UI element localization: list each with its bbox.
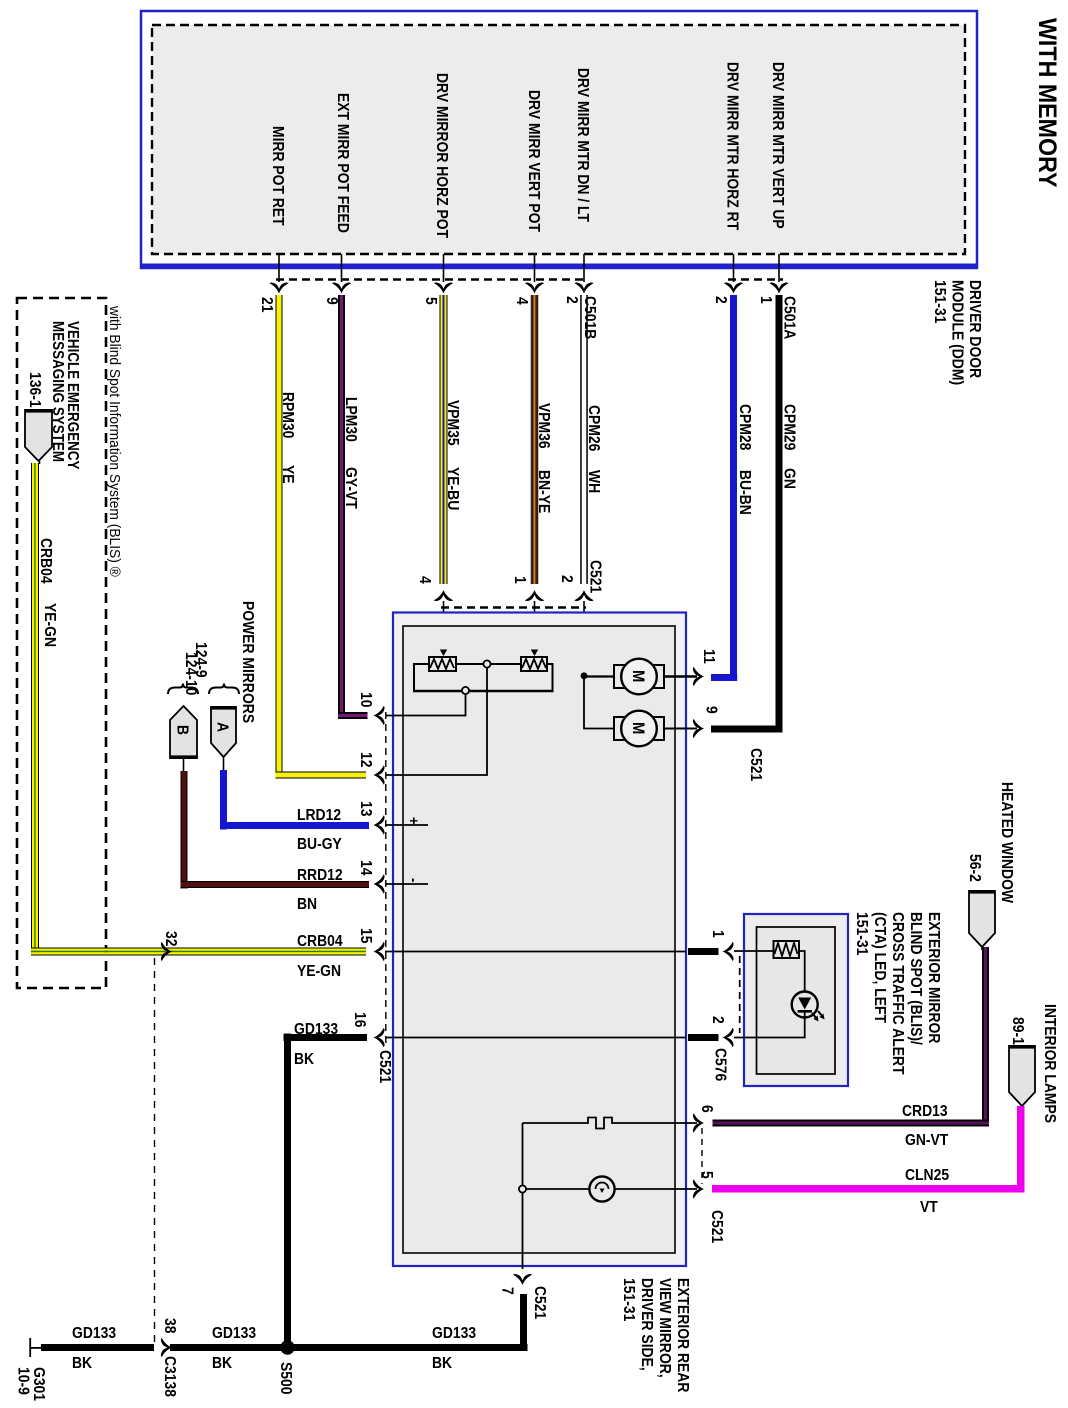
svg-text:11: 11 xyxy=(700,649,718,664)
svg-text:GD133: GD133 xyxy=(432,1324,476,1342)
wire CPM29 GN horizontal to pin 9 xyxy=(711,726,783,733)
LED light rays xyxy=(812,1011,823,1019)
wire RRD12 BN horizontal xyxy=(181,881,370,882)
svg-text:5: 5 xyxy=(422,297,440,305)
svg-text:DRV MIRR VERT POT: DRV MIRR VERT POT xyxy=(525,90,543,232)
DDM pin connector arrow x=279 xyxy=(269,282,288,293)
connector 56-2 HEATED WINDOW pentagon xyxy=(969,891,995,947)
wire VPM35 YE-BU vertical (pin 5) xyxy=(440,295,441,584)
svg-text:LRD12: LRD12 xyxy=(297,806,341,824)
svg-text:POWER MIRRORS: POWER MIRRORS xyxy=(239,601,257,723)
exterior mirror box (blue outline) xyxy=(393,613,686,1267)
connector 89-1 INTERIOR LAMPS pentagon xyxy=(1009,1046,1035,1106)
wire GD133 BK segment 3 xyxy=(288,1344,528,1351)
junction node on mid link xyxy=(483,660,490,667)
wire CPM28 BU-BN horizontal to pin 11 xyxy=(711,674,737,681)
svg-text:B: B xyxy=(173,725,191,735)
DDM pin stub wire x=341.5 xyxy=(341,254,343,282)
svg-text:7: 7 xyxy=(498,1287,516,1295)
svg-text:2: 2 xyxy=(709,1016,727,1024)
pin 9 arrow xyxy=(693,719,704,738)
motor M2 circle xyxy=(621,711,657,747)
wire heater branch vertical xyxy=(522,1123,524,1269)
svg-text:-: - xyxy=(406,878,423,883)
svg-text:with Blind Spot Information Sy: with Blind Spot Information System (BLIS… xyxy=(106,305,123,577)
BLIS system dashed box xyxy=(17,298,106,988)
svg-text:RRD12: RRD12 xyxy=(297,866,343,884)
wire P1 left lead xyxy=(414,664,429,691)
driver door module DDM box (blue outline) xyxy=(141,11,977,268)
svg-text:14: 14 xyxy=(357,860,375,876)
wire pin 16 through-line (ground path) xyxy=(385,1037,686,1039)
wire CPM29 GN vertical (pin 1) xyxy=(776,295,783,733)
svg-text:BK: BK xyxy=(72,1354,92,1372)
svg-text:A: A xyxy=(213,722,231,732)
DDM pin stub wire x=779 xyxy=(778,254,780,282)
wire LRD12 BU-GY horizontal xyxy=(220,822,369,829)
puddle lamp xyxy=(589,1176,614,1201)
svg-text:M: M xyxy=(629,670,647,682)
connector C3138 dashed line xyxy=(154,958,156,1343)
wire CRD13 GN-VT horizontal xyxy=(713,1120,990,1122)
wire P2 right lead xyxy=(547,664,553,691)
wire M1 left lead xyxy=(584,675,614,677)
svg-text:YE-GN: YE-GN xyxy=(297,962,341,980)
brace over connector B xyxy=(168,684,198,695)
wire GD133 BK segment 1 xyxy=(41,1344,154,1351)
wire mid link down to pin 12 xyxy=(386,668,487,775)
wire M1 right lead xyxy=(664,675,697,677)
motor common lead wire pin2 xyxy=(583,601,585,676)
svg-text:+: + xyxy=(406,817,423,825)
svg-text:4: 4 xyxy=(513,297,531,305)
mirror top connector arrow x=534.5 xyxy=(525,590,544,601)
svg-text:13: 13 xyxy=(357,801,375,816)
wire M2 right lead xyxy=(664,728,697,730)
brace over connector A xyxy=(209,684,239,695)
wire BLIS pin 1 lead xyxy=(734,950,774,952)
wire GD133 BK up to pin 7 xyxy=(520,1294,527,1348)
svg-text:1: 1 xyxy=(757,296,775,304)
DDM pin connector arrow x=584 xyxy=(574,282,593,293)
svg-text:BU-GY: BU-GY xyxy=(297,835,342,853)
pin 13 arrow xyxy=(374,815,385,834)
BLIS LED box (blue outline) xyxy=(744,914,848,1086)
svg-text:1: 1 xyxy=(511,576,529,584)
svg-text:DRIVER DOORMODULE (DDM)151-31: DRIVER DOORMODULE (DDM)151-31 xyxy=(931,280,984,385)
svg-text:C521: C521 xyxy=(376,1050,394,1083)
pin 10 arrow xyxy=(374,706,385,725)
wire CLN25 VT vertical xyxy=(1017,1106,1025,1193)
motor M1 housing xyxy=(614,665,664,688)
svg-text:BN-YE: BN-YE xyxy=(535,470,553,513)
svg-text:2: 2 xyxy=(563,296,581,304)
wire LPM30 GY-VT horizontal to pin 10 xyxy=(338,712,368,714)
svg-text:GN: GN xyxy=(780,468,798,489)
mirror top connector arrow x=443.5 xyxy=(434,590,453,601)
connector 136-1 pentagon xyxy=(25,410,52,461)
svg-text:VEHICLE EMERGENCYMESSAGING SYS: VEHICLE EMERGENCYMESSAGING SYSTEM xyxy=(49,321,81,470)
wire RPM30 YE vertical (pin 21) xyxy=(276,295,277,779)
mirror inner box xyxy=(403,626,675,1253)
svg-text:WITH MEMORY: WITH MEMORY xyxy=(1033,18,1061,188)
BLIS pin 2 arrow xyxy=(723,1028,734,1047)
connector A pentagon xyxy=(211,707,236,757)
wire bus down to pin 10 xyxy=(386,694,466,716)
DDM pin stub wire x=443.5 xyxy=(443,254,445,282)
wire B stub xyxy=(183,759,185,772)
wire GD133 BK pin 16 stub xyxy=(284,1034,368,1041)
svg-text:VPM35: VPM35 xyxy=(444,400,462,446)
svg-text:EXT MIRR POT FEED: EXT MIRR POT FEED xyxy=(334,93,352,233)
pin 6 arrow xyxy=(693,1113,704,1132)
svg-text:C576: C576 xyxy=(711,1048,729,1081)
svg-text:G30110-9: G30110-9 xyxy=(14,1367,48,1401)
connector C576 dashed line xyxy=(739,956,741,1033)
svg-text:C521: C521 xyxy=(586,560,604,593)
svg-text:YE-BU: YE-BU xyxy=(444,467,462,510)
svg-text:C501B: C501B xyxy=(581,296,599,339)
svg-text:9: 9 xyxy=(702,706,720,714)
svg-text:LPM30: LPM30 xyxy=(342,397,360,442)
DDM pin connector arrow x=534.5 xyxy=(525,282,544,293)
mirror connector C521 top dashed line xyxy=(441,606,586,609)
svg-text:HEATED WINDOW: HEATED WINDOW xyxy=(998,782,1016,904)
connector B pentagon (pointed top) xyxy=(170,706,197,758)
svg-text:56-2: 56-2 xyxy=(966,854,984,882)
svg-text:CPM26: CPM26 xyxy=(585,405,603,451)
pin 13 lead wire xyxy=(385,824,428,826)
svg-text:GD133: GD133 xyxy=(212,1324,256,1342)
svg-text:VPM36: VPM36 xyxy=(535,403,553,449)
svg-text:EXTERIOR MIRRORBLIND SPOT (BLI: EXTERIOR MIRRORBLIND SPOT (BLIS)/CROSS T… xyxy=(853,912,943,1075)
P2 wiper arrowhead xyxy=(531,650,538,657)
svg-text:CPM28: CPM28 xyxy=(736,404,754,450)
svg-text:GY-VT: GY-VT xyxy=(342,467,360,509)
pin 16 arrow xyxy=(374,1028,385,1047)
wire 56-2 stub xyxy=(981,947,983,950)
svg-text:CPM29: CPM29 xyxy=(780,404,798,450)
wire CPM26 WH vertical (pin 2) xyxy=(580,295,582,584)
svg-text:BU-BN: BU-BN xyxy=(736,470,754,515)
wire RPM30 YE horizontal to pin 12 xyxy=(276,772,367,773)
mirror right connector dashed line xyxy=(701,1128,703,1184)
svg-text:C3138: C3138 xyxy=(161,1356,179,1397)
pin 7 arrow xyxy=(513,1274,532,1285)
svg-text:C521: C521 xyxy=(531,1286,549,1319)
svg-text:89-1: 89-1 xyxy=(1009,1017,1027,1045)
DDM pin stub wire x=733.5 xyxy=(733,254,735,282)
svg-text:BK: BK xyxy=(294,1050,314,1068)
svg-text:21: 21 xyxy=(258,297,276,312)
wire A stub xyxy=(223,757,225,771)
DDM inner dashed boundary xyxy=(152,25,965,254)
wire CRD13 GN-VT vertical xyxy=(982,947,984,1127)
wire pin 15 through-line (CRB04 path) xyxy=(385,951,686,953)
wire VPM36 BN-YE vertical (pin 4) xyxy=(531,295,532,584)
svg-text:2: 2 xyxy=(712,296,730,304)
svg-text:WH: WH xyxy=(585,470,603,493)
BLIS pin 1 arrow xyxy=(723,942,734,961)
wire LPM30 GY-VT vertical (pin 9) xyxy=(338,295,340,719)
svg-text:C501A: C501A xyxy=(780,296,798,339)
wire P1-P2 mid link xyxy=(456,663,521,665)
motor M2 housing xyxy=(614,717,664,740)
wire CRB04 YE-GN vertical xyxy=(31,463,32,956)
LED D1 circle xyxy=(792,992,818,1018)
splice S500 dot xyxy=(280,1340,294,1354)
svg-text:S500: S500 xyxy=(277,1362,295,1394)
motor M1 circle xyxy=(621,659,657,695)
svg-text:CLN25: CLN25 xyxy=(905,1166,949,1184)
svg-text:2: 2 xyxy=(558,575,576,583)
svg-text:CRB04: CRB04 xyxy=(37,538,55,584)
wiper lead wire pin4 xyxy=(443,601,445,650)
wire 136-1 stub xyxy=(39,461,41,464)
wire BLIS pin 2 lead xyxy=(734,1037,757,1039)
wire RRD12 BN vertical xyxy=(181,771,182,889)
svg-text:GD133: GD133 xyxy=(72,1324,116,1342)
wire lamp to pin 5 xyxy=(615,1188,697,1190)
wire common down to M2 xyxy=(584,678,614,729)
wire mirror to BLIS pin 1 stub xyxy=(688,948,719,955)
svg-text:6: 6 xyxy=(698,1105,716,1113)
wire motor common junction dot xyxy=(581,672,588,679)
svg-text:1: 1 xyxy=(709,930,727,938)
svg-text:GN-VT: GN-VT xyxy=(905,1131,948,1149)
DDM pin connector arrow x=341.5 xyxy=(332,282,351,293)
mirror left connector dashed line xyxy=(385,712,387,1044)
pin 11 arrow xyxy=(693,667,704,686)
connector C501A dashed line xyxy=(728,278,783,280)
connector C501B dashed line xyxy=(276,278,588,280)
wiper lead wire pin1 xyxy=(534,601,536,650)
pin 15 arrow xyxy=(374,942,385,961)
wire CRB04 YE-GN horizontal xyxy=(31,948,366,949)
junction node lamp branch xyxy=(519,1185,526,1192)
pin 14 arrow xyxy=(374,874,385,893)
svg-text:DRV MIRROR HORZ POT: DRV MIRROR HORZ POT xyxy=(433,73,451,238)
svg-text:DRV MIRR MTR VERT UP: DRV MIRR MTR VERT UP xyxy=(769,62,787,229)
DDM pin connector arrow x=779 xyxy=(769,282,788,293)
junction node on bottom bus xyxy=(462,687,469,694)
DDM pin stub wire x=534.5 xyxy=(534,254,536,282)
DDM pin stub wire x=279 xyxy=(278,254,280,282)
heated mirror element xyxy=(523,1118,698,1129)
svg-text:12: 12 xyxy=(357,752,375,767)
wire CPM28 BU-BN vertical (pin 2) xyxy=(730,295,737,681)
svg-text:BK: BK xyxy=(432,1354,452,1372)
potentiometer P1 (horizontal pot) xyxy=(429,657,456,671)
wire GD133 BK up to pin 16 xyxy=(284,1034,291,1348)
svg-text:CRD13: CRD13 xyxy=(902,1102,948,1120)
svg-text:C521: C521 xyxy=(708,1210,726,1243)
svg-text:EXTERIOR REARVIEW MIRROR,DRIVE: EXTERIOR REARVIEW MIRROR,DRIVER SIDE,151… xyxy=(620,1278,692,1393)
connector 32 arrow xyxy=(161,942,172,961)
svg-text:DRV MIRR MTR DN / LT: DRV MIRR MTR DN / LT xyxy=(574,68,592,222)
BLIS inner box xyxy=(757,927,836,1074)
svg-text:38: 38 xyxy=(161,1318,179,1333)
svg-text:BN: BN xyxy=(297,895,317,913)
svg-text:DRV MIRR MTR HORZ RT: DRV MIRR MTR HORZ RT xyxy=(723,62,741,230)
wire resistor to LED xyxy=(799,951,805,992)
mirror top connector arrow x=584 xyxy=(574,590,593,601)
svg-text:M: M xyxy=(629,722,647,734)
wire to puddle lamp xyxy=(526,1188,590,1190)
pin 5 arrow xyxy=(693,1179,704,1198)
svg-text:YE-GN: YE-GN xyxy=(41,603,59,647)
LED D1 triangle and bar xyxy=(798,998,811,1010)
svg-text:C521: C521 xyxy=(747,748,765,781)
DDM pin stub wire x=584 xyxy=(583,254,585,282)
svg-text:15: 15 xyxy=(357,928,375,943)
DDM pin connector arrow x=443.5 xyxy=(434,282,453,293)
connector C3138 arrow (38) xyxy=(161,1338,172,1357)
svg-text:4: 4 xyxy=(416,576,434,584)
wire LRD12 BU-GY vertical xyxy=(220,770,227,830)
pin 12 arrow xyxy=(374,765,385,784)
svg-text:INTERIOR LAMPS: INTERIOR LAMPS xyxy=(1041,1004,1059,1123)
svg-text:VT: VT xyxy=(920,1198,938,1216)
svg-text:5: 5 xyxy=(698,1171,716,1179)
pin 14 lead wire xyxy=(385,883,428,885)
svg-text:32: 32 xyxy=(162,931,180,946)
DDM bottom blue bar xyxy=(140,264,977,269)
svg-text:CRB04: CRB04 xyxy=(297,932,343,950)
svg-text:10: 10 xyxy=(357,692,375,707)
resistor R1 in BLIS box xyxy=(774,941,800,958)
svg-text:YE: YE xyxy=(279,465,297,484)
DDM pin connector arrow x=733.5 xyxy=(724,282,743,293)
wire mirror to BLIS pin 2 stub xyxy=(688,1034,719,1041)
svg-text:BK: BK xyxy=(212,1354,232,1372)
wire GD133 BK segment 2 xyxy=(170,1344,288,1351)
svg-text:GD133: GD133 xyxy=(294,1020,338,1038)
svg-text:MIRR POT RET: MIRR POT RET xyxy=(269,126,287,226)
wire pot bottom bus xyxy=(413,690,554,692)
ground G301 bar xyxy=(29,1338,31,1357)
svg-text:16: 16 xyxy=(351,1012,369,1027)
potentiometer P2 (vertical pot) xyxy=(521,657,547,671)
wire LED to BLIS pin 2 xyxy=(757,1012,805,1038)
P1 wiper arrowhead xyxy=(440,650,447,657)
wire CLN25 VT horizontal xyxy=(712,1185,1025,1193)
svg-text:136-1: 136-1 xyxy=(26,372,44,408)
svg-text:RPM30: RPM30 xyxy=(279,392,297,438)
